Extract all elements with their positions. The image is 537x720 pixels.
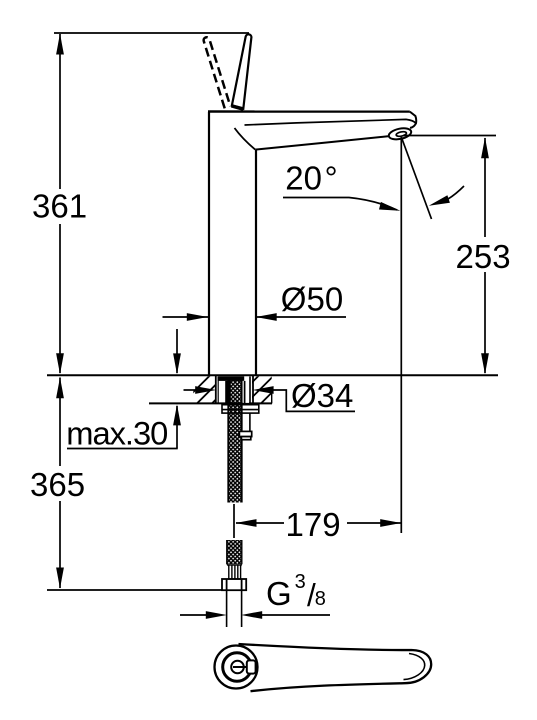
head chin diagonal: [235, 128, 256, 150]
faucet head top edge: [208, 110, 410, 112]
arrow down 361: [56, 353, 64, 374]
arrow up max30: [173, 404, 181, 425]
svg-text:179: 179: [286, 506, 341, 543]
dimension diameter 34 right arrow: [253, 386, 274, 394]
shank sleeve dark band: [225, 381, 231, 404]
slant line 20deg: [401, 137, 431, 219]
dimension 179 tick: [233, 504, 235, 538]
spout underside: [255, 136, 388, 149]
handle body: [239, 644, 432, 691]
arrow down max30: [173, 353, 181, 374]
d34 leader: [272, 390, 355, 411]
mounting hole right wall: [252, 376, 254, 404]
deck hatching: [180, 372, 292, 405]
arrow down 365: [56, 568, 64, 589]
svg-text:20°: 20°: [285, 159, 337, 196]
arrow left 179: [236, 519, 257, 527]
hose ferrule: [227, 564, 242, 579]
right hatch block edge: [271, 390, 273, 403]
svg-text:361: 361: [32, 187, 87, 224]
shank line right A: [244, 381, 246, 404]
deck top line: [47, 374, 498, 376]
svg-text:Ø50: Ø50: [281, 280, 343, 317]
side stud cap: [239, 431, 251, 436]
threaded shank rod with crosshatch: [228, 377, 242, 503]
handle ring: [223, 653, 252, 682]
arrow up 361: [56, 34, 64, 55]
mounting hole left wall: [215, 376, 217, 404]
faucet column right edge: [255, 150, 257, 375]
white gap right of rod: [243, 381, 249, 403]
max30 upper pointer line: [176, 329, 178, 373]
svg-text:Ø34: Ø34: [291, 377, 353, 414]
arrow right d50: [187, 313, 208, 321]
20deg leader line and arc: [283, 198, 397, 211]
washer under deck: [222, 405, 259, 413]
365 bottom extension line: [47, 589, 222, 591]
shank line right B: [249, 377, 251, 404]
handle hub tab: [247, 660, 256, 673]
svg-text:G: G: [266, 575, 292, 612]
side stud: [249, 413, 251, 431]
handle hub circle: [231, 661, 244, 674]
faucet column left edge: [208, 112, 210, 375]
shank thin line left: [217, 377, 219, 403]
svg-text:3: 3: [295, 571, 306, 593]
20deg right arc: [448, 186, 464, 199]
aerator outer ring: [388, 126, 412, 141]
deck bottom line: [149, 402, 272, 404]
dimension 179 line: [236, 522, 401, 524]
shank gasket bar: [218, 376, 245, 381]
lever dashed (alternate position): [204, 37, 231, 108]
dimension 361 line: [59, 34, 61, 373]
arrow down 253: [481, 353, 489, 374]
arrow 20deg at vertical: [379, 202, 400, 211]
arrow right 179: [380, 519, 401, 527]
dimension G38 right line: [262, 614, 331, 616]
dimension 253 top extension from aerator: [403, 135, 496, 137]
dimension 365 line: [59, 378, 61, 589]
svg-text:8: 8: [315, 588, 326, 610]
arrow up 365: [56, 377, 64, 398]
svg-text:365: 365: [30, 466, 85, 503]
arrow left d50: [256, 313, 277, 321]
dimension diameter 50 left line: [163, 316, 209, 318]
svg-text:253: 253: [456, 238, 511, 275]
handle cap inner contour: [404, 654, 425, 680]
lever solid: [232, 34, 252, 108]
lever base joint: [231, 104, 244, 111]
dimension 253 line: [484, 138, 486, 373]
handle hub slot: [233, 666, 246, 668]
arrow 20deg at slant: [429, 195, 450, 206]
aerator inner ring: [396, 131, 407, 137]
handle side view outer circle: [215, 646, 258, 689]
spout tip bevel: [410, 112, 416, 128]
arrow up 253: [481, 137, 489, 158]
connection pipe G38: [226, 590, 228, 627]
dimension diameter 34 left arrow: [184, 389, 198, 391]
vertical reference line from spout outlet: [400, 137, 402, 533]
max30 lower pointer line: [176, 406, 178, 449]
wire top extension line 361: [54, 32, 249, 34]
max30 underline: [67, 448, 178, 450]
dimension G38 left line: [180, 614, 207, 616]
connection nut: [222, 579, 246, 590]
hose lower segment: [227, 540, 242, 564]
svg-text:max.30: max.30: [66, 415, 168, 452]
dimension diameter 50 right line: [255, 316, 346, 318]
head inner top line: [245, 119, 417, 125]
